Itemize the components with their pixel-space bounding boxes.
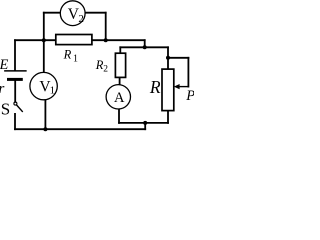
wire riser bottom-right [144,123,146,129]
label R1 [63,48,78,65]
wire V2 branch left vertical [43,13,45,41]
junction node dot J6 [43,127,47,131]
wire rheostat top [167,47,169,69]
svg-text:P: P [185,88,194,104]
wire V2 right horizontal [85,12,106,14]
wire top-left horizontal from battery branch to R1 [15,39,56,41]
wire bottom rail [15,128,145,130]
svg-text:A: A [114,90,125,106]
wire switch to bottom rail [14,114,16,129]
svg-text:R: R [63,48,72,62]
wire V1 top [43,40,45,72]
wire rheostat bottom [167,111,169,123]
wire left vertical battery branch [14,40,16,70]
svg-text:1: 1 [50,85,56,97]
wire slider branch horizontal [168,57,188,59]
junction node dot J5 [143,121,147,125]
svg-text:r: r [0,81,5,97]
wire riser J3 to top wire [144,40,146,47]
wire ammeter top to R2 [119,77,121,85]
wire V2 right vertical down to node [105,13,107,41]
wire battery to switch [14,81,16,102]
svg-text:2: 2 [103,65,108,75]
rheostat R body [162,69,174,111]
svg-text:1: 1 [73,53,78,64]
resistor R2 body [115,53,125,77]
switch S pivot circle [14,102,17,105]
wire slider branch vertical [187,58,189,87]
label R2 [95,58,108,74]
wire R2 top [119,47,121,53]
rheostat slider arrow [174,84,189,89]
voltmeter V1 circle [30,72,57,99]
wire ammeter bottom [118,109,120,123]
resistor R1 body [56,35,92,45]
junction node dot J2 [104,38,108,42]
junction node dot J3 [143,45,147,49]
battery E short thick plate [9,78,22,81]
junction node dot J4 [166,56,170,60]
label V1 [39,78,55,96]
label V2 [68,6,84,25]
wire V1 bottom [44,100,46,130]
switch S blade [17,105,23,111]
wire bottom middle horizontal ammeter to rheostat [119,122,168,124]
wire main top horizontal right of R1 [92,39,145,41]
junction node dot J1 [42,38,46,42]
svg-text:E: E [0,57,9,73]
ammeter A circle [106,85,130,109]
wire middle horizontal row [120,46,168,48]
wire V2 left horizontal [44,12,61,14]
battery E long plate [5,70,26,72]
svg-text:R: R [149,77,161,97]
voltmeter V2 circle [60,1,85,26]
svg-text:S: S [1,100,10,119]
svg-text:2: 2 [78,13,84,25]
